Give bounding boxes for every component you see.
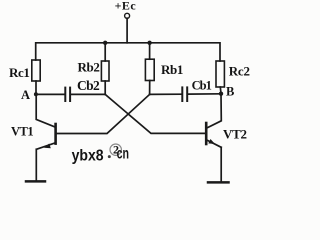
watermark ybx8.cn (72, 143, 129, 165)
svg-text:ybx8: ybx8 (72, 148, 104, 165)
wire top supply rail (36, 43, 220, 61)
terminal +Ec circle (125, 13, 130, 18)
svg-text:Rc2: Rc2 (229, 64, 250, 79)
svg-text:+Ec: +Ec (115, 0, 137, 13)
wire Cb1 to node B (188, 93, 221, 95)
transistor VT2 base bar (205, 123, 208, 144)
wire Cb2 to Rb2 junction (71, 93, 105, 95)
wire node A to Cb2 (36, 93, 64, 95)
transistor VT1 emitter arrow (44, 144, 51, 149)
svg-text:Rb1: Rb1 (161, 62, 183, 77)
junction node rail-Rb2 (103, 41, 107, 45)
wire node A to VT1 collector (36, 94, 55, 127)
wire Rb2 bottom lead (104, 81, 106, 94)
resistor Rb1 (145, 59, 154, 80)
svg-text:Cb2: Cb2 (77, 78, 100, 93)
wire cross-coupling Rb1 junction to VT1 base (57, 94, 150, 133)
wire cross-coupling Cb2 junction to VT2 base (105, 94, 205, 133)
transistor VT2 emitter (207, 140, 221, 147)
watermark circled 2 (110, 144, 121, 155)
wire Rb1 bottom lead (149, 81, 151, 95)
wire Rc2 to node B (219, 87, 222, 94)
svg-text:Cb1: Cb1 (192, 78, 212, 92)
wire Rb1 junction to Cb1 (150, 93, 182, 95)
wire Rb2 top lead (104, 43, 106, 61)
node B junction dot (219, 92, 223, 96)
wire node B to VT2 collector (207, 94, 222, 128)
wire VT1 emitter to ground (35, 149, 37, 180)
wire +Ec lead (126, 18, 128, 43)
capacitor Cb1 (182, 87, 187, 101)
svg-text:B: B (226, 85, 234, 99)
wire Rc1 to node A (35, 81, 37, 94)
wire VT2 emitter to ground (220, 147, 222, 181)
svg-text:VT2: VT2 (223, 127, 247, 142)
transistor VT2 emitter arrow (208, 139, 215, 144)
ground (right) (208, 181, 229, 184)
capacitor Cb2 (65, 88, 70, 101)
svg-text:VT1: VT1 (11, 125, 33, 139)
transistor VT1 base bar (54, 124, 57, 144)
svg-text:Rb2: Rb2 (78, 59, 100, 74)
svg-text:cn: cn (117, 146, 129, 163)
svg-text:Rc1: Rc1 (9, 65, 29, 80)
junction node rail-Rb1 (147, 41, 151, 45)
resistor Rc1 (32, 60, 40, 81)
resistor Rc2 (216, 61, 224, 87)
wire Rb1 top lead (149, 43, 151, 59)
node A junction dot (34, 92, 38, 96)
resistor Rb2 (101, 61, 109, 81)
svg-text:A: A (21, 88, 30, 102)
transistor VT1 emitter (36, 143, 55, 149)
ground (left) (26, 180, 45, 183)
